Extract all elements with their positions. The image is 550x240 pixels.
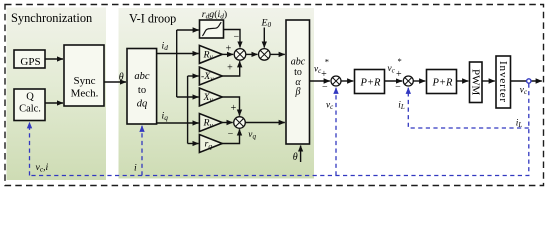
wire GPS to Sync Mech — [45, 58, 63, 60]
svg-text:−: − — [233, 32, 239, 43]
svg-text:id: id — [162, 41, 169, 53]
svg-text:to: to — [138, 85, 146, 96]
svg-text:−: − — [395, 82, 401, 93]
wire iL feedback — [408, 88, 529, 128]
svg-text:Mech.: Mech. — [71, 88, 99, 100]
svg-text:Calc.: Calc. — [19, 103, 41, 114]
summing junction sum d — [234, 49, 246, 61]
wire abc-alphabeta to sum 1 — [310, 80, 330, 82]
block PWM — [470, 62, 483, 103]
wire i_d — [157, 53, 199, 55]
wire Inverter to output — [511, 80, 542, 82]
wire P+R 1 to sum 2 — [385, 80, 403, 82]
block Q Calc. — [14, 89, 45, 121]
wire P+R 2 to PWM — [457, 80, 469, 82]
wire -Xv out to sum d — [222, 61, 240, 76]
svg-text:rq: rq — [205, 139, 213, 151]
wire vc feedback down and across — [30, 84, 529, 176]
gain triangle Rv (d-axis) — [199, 45, 222, 63]
svg-text:+: + — [227, 63, 233, 74]
svg-text:dq: dq — [137, 99, 148, 110]
wire theta 2 into abc-alphabeta — [300, 146, 302, 163]
panel V-I droop — [119, 8, 315, 179]
svg-text:P+R: P+R — [432, 77, 453, 88]
summing junction 1 — [331, 76, 341, 86]
svg-text:E0: E0 — [261, 18, 272, 30]
wire i_q branch column — [187, 76, 189, 144]
svg-text:iq: iq — [162, 111, 169, 123]
block Inverter — [496, 56, 511, 108]
svg-text:GPS: GPS — [20, 56, 40, 68]
svg-text:Rv: Rv — [203, 118, 214, 130]
svg-text:-Xv: -Xv — [201, 71, 214, 83]
svg-text:Sync: Sync — [74, 75, 96, 87]
wire PWM to Inverter — [482, 80, 495, 82]
svg-text:Inverter: Inverter — [497, 61, 509, 103]
wire i feedback riser to abc-dq — [141, 126, 143, 176]
svg-text:abc: abc — [134, 71, 150, 82]
wire vc riser to sum1 — [335, 88, 337, 176]
block abc to alpha beta — [286, 20, 310, 144]
svg-text:*: * — [398, 56, 402, 66]
wire Q Calc to Sync Mech — [45, 102, 63, 104]
svg-text:+: + — [396, 69, 402, 80]
svg-text:Rv: Rv — [203, 50, 214, 62]
block P+R 2 — [427, 70, 457, 94]
wire sum q to abc-alphabeta — [245, 122, 285, 124]
block P+R 1 — [355, 70, 385, 94]
gain triangle Rv (q-axis) — [199, 114, 222, 132]
svg-text:Xv: Xv — [203, 92, 214, 104]
wire sum2 to P+R 2 — [413, 80, 425, 82]
wire to saturation block — [177, 29, 199, 31]
block Sync Mech. — [64, 45, 104, 106]
svg-text:Synchronization: Synchronization — [11, 11, 92, 25]
gain triangle rq — [199, 135, 222, 153]
wire i_d branch column — [176, 30, 178, 97]
wire saturation out to sum d — [224, 30, 241, 48]
wire to gain -Xv — [188, 75, 199, 77]
svg-text:rdg(id): rdg(id) — [202, 9, 227, 21]
svg-text:V-I droop: V-I droop — [129, 12, 176, 26]
wire sum d to multiplier — [246, 53, 258, 55]
svg-text:θ: θ — [119, 72, 124, 83]
gain triangle Xv — [199, 88, 222, 106]
svg-text:*: * — [325, 57, 329, 67]
wire to gain rq — [188, 143, 199, 145]
svg-text:P+R: P+R — [360, 77, 381, 88]
wire to gain Xv — [177, 96, 199, 98]
block abc to dq — [127, 49, 157, 125]
wire vc-i feedback riser to Q Calc — [29, 122, 31, 175]
svg-text:PWM: PWM — [470, 69, 482, 96]
multiplier junction — [259, 49, 271, 61]
node vc tap — [527, 79, 531, 83]
wire Xv out to sum q — [222, 97, 239, 116]
svg-text:β: β — [295, 87, 301, 98]
summing junction 2 — [403, 76, 413, 86]
block GPS — [14, 50, 45, 68]
panel Synchronization — [7, 8, 107, 181]
svg-text:+: + — [226, 44, 232, 55]
wire E0 into multiplier — [263, 28, 265, 48]
wire Rv out to sum q — [222, 122, 233, 124]
wire multiplier to abc-alphabeta — [270, 53, 285, 55]
wire theta: Sync Mech to abc-dq — [104, 81, 126, 83]
svg-text:i: i — [134, 163, 137, 174]
wire i_q — [157, 122, 199, 124]
svg-text:−: − — [228, 129, 234, 140]
wire sum1 to P+R 1 — [341, 80, 353, 82]
svg-text:abc: abc — [291, 57, 306, 68]
svg-text:−: − — [322, 82, 328, 93]
svg-text:Q: Q — [26, 92, 34, 103]
svg-text:θ: θ — [293, 152, 298, 163]
wire rq out to sum q — [222, 129, 239, 143]
svg-text:+: + — [321, 69, 327, 80]
svg-text:vc,i: vc,i — [36, 162, 49, 174]
outer dashed frame — [5, 5, 544, 186]
gain triangle -Xv — [199, 67, 222, 85]
saturation block r_d g(i_d) — [200, 20, 224, 38]
summing junction sum q — [234, 117, 246, 129]
wire Rv out to sum d — [222, 53, 233, 55]
svg-text:+: + — [231, 103, 237, 114]
